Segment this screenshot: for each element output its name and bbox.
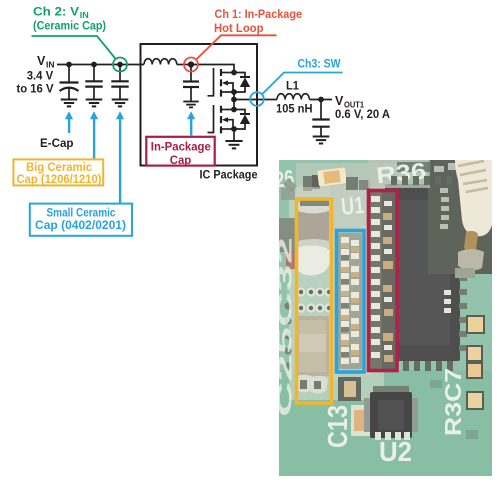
probe circle Ch1 red: [184, 58, 198, 72]
svg-text:E-Cap: E-Cap: [40, 138, 74, 150]
wire L1 to output: [309, 99, 332, 101]
transistor Q2 low-side MOSFET: [208, 105, 235, 133]
U2 IC: [364, 386, 418, 440]
svg-text:Ch3: SW: Ch3: SW: [298, 59, 341, 71]
svg-text:In-Package: In-Package: [151, 141, 211, 153]
arrow E-cap: [65, 111, 73, 133]
arrow small ceramic cap: [116, 111, 124, 203]
pcb base: [279, 160, 492, 476]
caps column inside blue rect: [338, 233, 362, 369]
wire SW node out of package: [234, 99, 277, 101]
inductor L1: [277, 94, 309, 100]
big beige cap: [296, 316, 329, 376]
label Ch2: [33, 7, 106, 33]
node VOUT: [318, 97, 324, 103]
corner solder fleck: [283, 178, 297, 192]
ground C3: [112, 100, 129, 107]
highlight rect blue: [337, 231, 365, 373]
capacitor C3 small ceramic: [111, 65, 128, 100]
PCB photo: [273, 157, 492, 476]
svg-text:3.4 V: 3.4 V: [27, 71, 54, 83]
node Q2 drain: [231, 107, 237, 113]
node VIN-3: [117, 62, 123, 68]
ground C1: [61, 100, 78, 107]
big IC bottom pins: [392, 361, 453, 371]
label box big ceramic cap: [13, 159, 103, 186]
svg-text:L1: L1: [286, 81, 300, 93]
svg-text:(Ceramic Cap): (Ceramic Cap): [33, 21, 106, 33]
probe circle Ch2 green: [113, 58, 127, 72]
tan caps column bottom right: [466, 315, 485, 410]
pcb washed center: [289, 185, 384, 400]
node Q1 drain: [231, 70, 237, 76]
node hot loop: [188, 61, 194, 67]
capacitor C2 big ceramic: [85, 65, 102, 100]
svg-text:Ch 2: V: Ch 2: V: [33, 7, 79, 19]
node VIN-2: [91, 62, 97, 68]
ground in-package cap: [183, 102, 198, 108]
highlight rect red: [369, 191, 398, 371]
IC top pins: [391, 176, 452, 185]
svg-text:IN: IN: [80, 11, 89, 20]
wire hot node to Q1 drain: [191, 65, 234, 73]
dark component top-left: [303, 176, 312, 191]
transistor Q1 high-side MOSFET: [208, 68, 235, 97]
svg-text:V: V: [335, 94, 344, 108]
big IC right pins: [459, 205, 467, 351]
callout line Ch3: [263, 73, 343, 94]
gray patch left strip: [279, 218, 299, 252]
label VIN: [17, 54, 55, 96]
capacitor C-out: [312, 100, 329, 137]
arrow big ceramic cap: [90, 111, 98, 158]
label VOUT1: [335, 94, 390, 121]
node Q1 source: [231, 89, 237, 95]
svg-text:0.6 V, 20 A: 0.6 V, 20 A: [335, 109, 390, 121]
node SW: [231, 97, 237, 103]
noise dots: [430, 380, 478, 439]
caps column inside red rect: [369, 191, 397, 369]
svg-text:Small Ceramic: Small Ceramic: [47, 208, 117, 220]
probe circle Ch3 blue: [250, 92, 264, 106]
dark zone around coil top right: [428, 160, 492, 274]
pcb bottom darker: [279, 370, 492, 476]
in-package capacitor: [183, 65, 199, 102]
label Ch1: [214, 9, 302, 35]
label box in-package cap: [146, 137, 214, 167]
svg-text:Cap: Cap: [170, 155, 192, 167]
white solder blob: [295, 245, 331, 275]
photo veil: [279, 160, 492, 476]
green dark patches right side: [397, 162, 431, 172]
wire coil to hot node: [177, 64, 191, 66]
diode D1 body diode of Q1: [234, 73, 250, 93]
svg-text:Cap (0402/0201): Cap (0402/0201): [35, 220, 126, 232]
label box small ceramic cap: [30, 204, 132, 236]
svg-text:IC Package: IC Package: [200, 170, 258, 182]
wire Q2 source to ground: [233, 129, 235, 141]
white coil top right: [455, 160, 492, 236]
ground Q2 source: [225, 141, 242, 148]
inductor internal coil: [144, 59, 177, 65]
callout line Ch1: [197, 35, 277, 59]
svg-text:V: V: [37, 54, 46, 68]
ground C-out: [313, 137, 330, 144]
silkscreen texts: [273, 157, 466, 467]
highlight rect yellow: [297, 199, 332, 403]
dark band top of yellow rect: [300, 199, 329, 206]
svg-text:Hot Loop: Hot Loop: [214, 23, 264, 35]
svg-text:105 nH: 105 nH: [276, 103, 313, 115]
through-hole pads left column: [284, 302, 291, 369]
diode D2 body diode of Q2: [234, 110, 250, 130]
capacitor C1 E-cap: [60, 65, 79, 100]
via donut rows: [296, 287, 333, 312]
IC package box: [141, 44, 258, 166]
svg-text:to 16 V: to 16 V: [17, 83, 54, 95]
solder wires below coil: [464, 231, 478, 252]
node VIN-1: [66, 62, 72, 68]
small tan cap left of U2: [351, 405, 370, 436]
callout line Ch2: [32, 36, 116, 59]
svg-text:OUT1: OUT1: [344, 100, 364, 110]
node Q2 source: [231, 126, 237, 132]
wash behind R36: [368, 160, 430, 188]
ground C2: [86, 100, 103, 107]
arrow in-package cap: [187, 111, 195, 135]
wire VIN rail: [57, 64, 144, 66]
svg-text:Ch 1: In-Package: Ch 1: In-Package: [215, 9, 303, 21]
solder mottle under beige cap: [296, 375, 328, 394]
svg-text:Big Ceramic: Big Ceramic: [26, 162, 93, 174]
svg-text:IN: IN: [46, 59, 55, 69]
svg-text:Cap (1206/1210): Cap (1206/1210): [17, 174, 102, 186]
dark components right of U1: [346, 177, 358, 190]
wire Q1 source to SW to Q2 drain: [233, 92, 235, 110]
C13 dark component: [338, 377, 361, 401]
red-brown blob left: [286, 251, 297, 269]
big gray cap inside yellow rect: [298, 203, 329, 248]
tan cap top: [317, 167, 347, 186]
big IC dark body: [385, 184, 460, 361]
